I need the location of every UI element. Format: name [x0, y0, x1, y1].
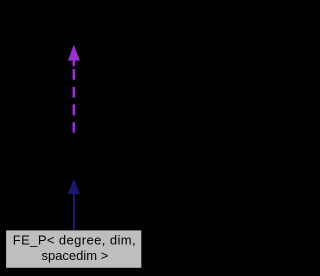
template relation arrow (dashed, darkorchid), pointing up	[68, 45, 80, 133]
arrowhead	[68, 179, 80, 194]
dashed stem segments	[73, 61, 76, 67]
node FE_P (current class, grey filled box)	[6, 230, 141, 267]
stem	[73, 194, 75, 231]
svg-text:FE_P< degree, dim,: FE_P< degree, dim,	[13, 232, 136, 247]
public inheritance arrow (solid, midnightblue), pointing up	[68, 179, 80, 230]
arrowhead	[68, 45, 80, 61]
svg-text:spacedim >: spacedim >	[41, 248, 108, 263]
